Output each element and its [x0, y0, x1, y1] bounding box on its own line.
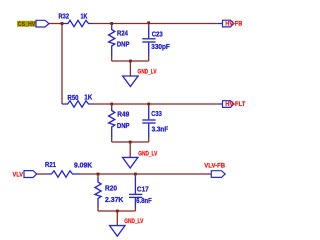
svg-text:R49: R49 [117, 112, 129, 119]
svg-text:GND_LV: GND_LV [138, 69, 158, 76]
svg-text:2.37K: 2.37K [105, 197, 123, 204]
node D junction at R49 top [110, 103, 113, 106]
node F junction at R20 top [97, 173, 100, 176]
node B junction at R24 top [110, 22, 113, 25]
node junction gnd stub row2 [129, 141, 132, 144]
port HV-FB [223, 20, 234, 27]
port VLV [24, 171, 37, 178]
svg-text:R32: R32 [59, 13, 70, 20]
resistor R24 [109, 24, 115, 62]
svg-text:CS_HV: CS_HV [18, 22, 36, 28]
svg-text:R20: R20 [105, 186, 117, 193]
node CS_HV net label [17, 21, 36, 28]
ground GND_LV row2 [123, 157, 138, 168]
resistor R21 [46, 171, 81, 177]
wire R21 to port VLV-FB [80, 173, 211, 175]
node junction gnd stub row1 [129, 60, 132, 63]
wire bottom row3 R20 to C17 [98, 210, 135, 212]
wire stub into port HV-FLT [217, 103, 222, 105]
wire gnd stub row3 [116, 211, 118, 226]
wire VLV port to R21 [37, 173, 46, 175]
ground GND_LV row1 [123, 76, 138, 87]
svg-text:C33: C33 [151, 111, 162, 118]
svg-text:GND_LV: GND_LV [124, 218, 144, 225]
svg-text:R50: R50 [68, 95, 79, 102]
svg-text:GND_LV: GND_LV [138, 150, 158, 157]
wire R50 to port HV-FLT [93, 103, 217, 105]
svg-text:1K: 1K [84, 95, 92, 102]
wire CS_HV port to node A [49, 23, 62, 25]
svg-text:6.8nF: 6.8nF [136, 198, 152, 205]
svg-text:VLV-FB: VLV-FB [204, 163, 225, 170]
port CS_HV [36, 20, 49, 27]
svg-text:R21: R21 [45, 162, 56, 169]
svg-text:330pF: 330pF [151, 44, 170, 51]
port VLV-FB [211, 171, 225, 178]
port HV-FLT [223, 101, 234, 108]
svg-text:VLV: VLV [13, 171, 24, 178]
svg-text:9.09K: 9.09K [74, 162, 92, 169]
svg-text:HV-FB: HV-FB [225, 20, 242, 27]
wire bottom row1 R24 to C23 [112, 60, 149, 62]
resistor R49 [109, 104, 115, 142]
capacitor C23 [142, 24, 155, 62]
node G junction at C17 top [134, 173, 137, 176]
resistor R20 [95, 174, 101, 211]
node junction gnd stub row3 [116, 210, 119, 213]
wire stub into port HV-FB [217, 23, 222, 25]
svg-text:1K: 1K [81, 13, 88, 20]
wire bottom row2 R49 to C33 [112, 141, 149, 143]
ground GND_LV row3 [110, 226, 125, 237]
svg-text:R24: R24 [117, 30, 128, 37]
svg-text:C17: C17 [137, 186, 149, 193]
resistor R32 [62, 20, 93, 26]
node A junction [61, 22, 64, 25]
svg-text:HV-FLT: HV-FLT [225, 101, 245, 108]
svg-text:3.3nF: 3.3nF [152, 126, 169, 133]
wire gnd stub row1 [129, 61, 131, 76]
node C junction at C23 top [147, 21, 150, 24]
wire vertical bus node A to row2 [61, 24, 63, 105]
capacitor C17 [129, 174, 142, 211]
svg-text:DNP: DNP [117, 41, 130, 48]
resistor R50 [62, 101, 93, 107]
wire gnd stub row2 [129, 142, 131, 157]
wire R32 to port HV-FB [93, 23, 217, 25]
node E junction at C33 top [147, 103, 150, 106]
svg-text:DNP: DNP [117, 123, 130, 130]
capacitor C33 [142, 104, 155, 142]
svg-text:C23: C23 [152, 32, 163, 39]
